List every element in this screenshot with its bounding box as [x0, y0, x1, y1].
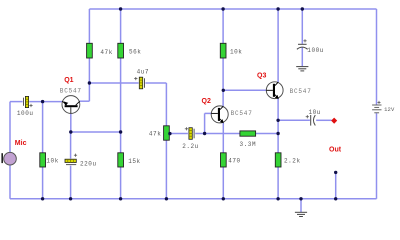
wire mic column lower [9, 165, 11, 199]
resistor R6 47k [164, 126, 170, 140]
wire Q1 emitter down [70, 113, 72, 132]
wire 47k top to rail [88, 9, 90, 43]
resistor R1 47k [87, 43, 93, 58]
svg-text:47k: 47k [149, 130, 161, 137]
wire Q3 emitter column [277, 98, 279, 152]
wire 15k to ground rail [120, 167, 122, 199]
node rail-ground [299, 197, 302, 200]
svg-text:BC547: BC547 [231, 110, 253, 117]
transistor Q1 BC547 [62, 96, 80, 114]
svg-text:3.3M: 3.3M [240, 141, 257, 148]
wire C3 to corner [145, 82, 166, 84]
wire emitter row [71, 131, 121, 133]
transistor Q2 BC547 [211, 106, 228, 123]
wire C4 to 3.3M row [195, 133, 240, 135]
wire 470 to ground rail [222, 167, 224, 199]
ground bottom rail [295, 212, 307, 216]
node rail-100u [301, 7, 304, 10]
wire corner down to 47k R6 [165, 83, 167, 126]
node rail-R2 [41, 197, 44, 200]
wire right supply column upper [376, 9, 378, 105]
node Q3 emitter out [276, 119, 279, 122]
wire 56k top to rail [120, 9, 122, 43]
svg-text:100u: 100u [307, 47, 324, 54]
wire 100u cap to ground symbol [301, 48, 303, 67]
svg-text:2.2u: 2.2u [182, 143, 199, 150]
node Out terminal red [331, 118, 337, 124]
wire C6 to out terminal [316, 119, 331, 121]
svg-text:Q2: Q2 [202, 98, 211, 105]
node rail-10k [221, 7, 224, 10]
wire R6 node to C4 [169, 133, 188, 135]
wire 2.2k to ground rail [277, 167, 279, 199]
wire 15k column [120, 132, 122, 153]
resistor R4 15k [118, 153, 124, 167]
battery B1 12V [372, 101, 381, 113]
wire 100u decoupling column [301, 9, 303, 44]
wire Q2 base horizontal [205, 112, 212, 114]
svg-text:Q3: Q3 [257, 73, 266, 80]
wire right supply column lower [376, 113, 378, 199]
svg-text:470: 470 [228, 157, 240, 164]
resistor R9 3.3M horizontal [240, 131, 256, 136]
node rail-out return [334, 197, 337, 200]
svg-text:10u: 10u [309, 109, 321, 116]
node rail-56k [119, 7, 122, 10]
capacitor C1 100u input [24, 96, 33, 107]
wire 3.3M to Q3 emitter column [256, 133, 279, 135]
wire node row y83 to C3 [89, 82, 138, 84]
node 47k-collector [88, 81, 91, 84]
svg-text:47k: 47k [100, 49, 112, 56]
node Q3 base [222, 89, 225, 92]
transistor Q3 BC547 [266, 82, 283, 99]
svg-text:4u7: 4u7 [137, 68, 149, 75]
capacitor C3 4u7 [134, 77, 144, 89]
wire R2 branch down [42, 102, 44, 153]
wire 220u column lower [70, 166, 72, 199]
svg-text:Mic: Mic [15, 140, 27, 147]
wire 10k top to rail [222, 9, 224, 43]
node rail-Q3C [276, 7, 279, 10]
resistor R7 10k [220, 43, 226, 58]
capacitor C6 10u output [306, 115, 316, 126]
node Q1 emitter [69, 130, 72, 133]
ground supply decoupling [296, 67, 308, 71]
wire top supply rail [89, 8, 376, 10]
wire mic column upper [9, 102, 11, 153]
svg-text:BC547: BC547 [60, 88, 82, 95]
node rail-15k [119, 197, 122, 200]
node emitter-15k [119, 130, 122, 133]
resistor R2 10k [40, 153, 46, 167]
node input-R2 [41, 100, 44, 103]
capacitor C5 100u supply decoupling [297, 39, 308, 49]
svg-text:100u: 100u [17, 110, 34, 117]
node feedback-2.2k [276, 132, 279, 135]
wire Q2 emitter down [222, 123, 224, 153]
svg-text:2.2k: 2.2k [284, 157, 301, 164]
node rail-R6 [165, 197, 168, 200]
resistor R8 470 [221, 153, 227, 167]
microphone MIC1 [2, 152, 16, 165]
node R6 tap [168, 132, 171, 135]
svg-text:12V: 12V [384, 106, 395, 113]
node Q2 base [203, 132, 206, 135]
wire output row to C6 [278, 119, 310, 121]
svg-text:220u: 220u [80, 161, 97, 168]
wire 10k bottom to Q2 collector [222, 58, 224, 107]
wire out return stub [335, 172, 337, 198]
wire input row left of C1 [10, 101, 23, 103]
wire Q2 base riser [204, 113, 206, 133]
capacitor C4 2.2u [185, 127, 194, 139]
wire input row C1 to Q1 base [29, 101, 62, 103]
wire R2 to ground rail [42, 167, 44, 199]
svg-text:56k: 56k [129, 48, 141, 55]
resistor R10 2.2k [275, 153, 281, 167]
wire Q3 collector to rail [277, 9, 279, 82]
svg-text:15k: 15k [128, 158, 140, 165]
wire 220u column upper [70, 132, 72, 159]
wire 56k column down [120, 58, 122, 132]
wire Q3 base row [223, 89, 266, 91]
svg-text:10k: 10k [230, 48, 242, 55]
node out return top [334, 171, 337, 174]
svg-text:Q1: Q1 [64, 77, 73, 84]
capacitor C2 220u emitter bypass [65, 154, 77, 165]
svg-text:10k: 10k [46, 158, 58, 165]
wire ground stub bottom [300, 199, 302, 212]
wire bottom ground rail [10, 198, 377, 200]
node rail-220u [69, 197, 72, 200]
wire R6 to ground rail [165, 140, 167, 199]
svg-text:Out: Out [329, 147, 342, 154]
resistor R3 56k [118, 43, 124, 58]
svg-text:BC547: BC547 [290, 88, 312, 95]
node rail-470 [222, 197, 225, 200]
wire 47k column [88, 58, 90, 101]
wire Q1 collector horizontal [80, 100, 90, 102]
node rail-2.2k [276, 197, 279, 200]
